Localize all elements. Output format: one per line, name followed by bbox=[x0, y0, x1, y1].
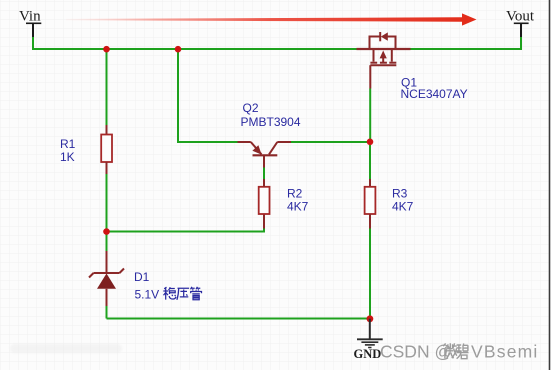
svg-text:Vout: Vout bbox=[506, 9, 535, 25]
svg-text:VBsemi: VBsemi bbox=[471, 341, 539, 361]
wire Q1 gate to junction bbox=[369, 89, 371, 143]
resistor R1 bbox=[60, 125, 112, 174]
wire Q1 drain to Vout bbox=[410, 48, 521, 50]
svg-text:R3: R3 bbox=[392, 187, 408, 201]
wire node to R2 bottom bbox=[107, 228, 265, 232]
label 5.1V zener chinese glyphs bbox=[163, 287, 201, 300]
resistor R3 bbox=[365, 179, 414, 229]
junction on rail at R1 bbox=[103, 46, 110, 53]
mosfet Q1 bbox=[357, 32, 468, 101]
port Vin bbox=[19, 9, 41, 50]
zener diode D1 bbox=[89, 251, 159, 306]
wire R1 to lower node bbox=[106, 174, 108, 232]
wire junction down to R3 bbox=[369, 142, 371, 179]
junction node R1/R2/D1 bbox=[103, 228, 110, 235]
svg-text:GND: GND bbox=[354, 347, 382, 361]
svg-text:Q2: Q2 bbox=[243, 101, 259, 115]
resistor R2 bbox=[259, 179, 309, 229]
svg-text:Vin: Vin bbox=[19, 9, 41, 25]
wire R2 to Q2 base bbox=[263, 168, 265, 180]
right margin bbox=[550, 0, 554, 370]
svg-text:PMBT3904: PMBT3904 bbox=[241, 115, 301, 129]
wire R3 to ground rail bbox=[369, 229, 371, 319]
wire node down to D1 bbox=[106, 232, 108, 252]
svg-text:CSDN @: CSDN @ bbox=[380, 341, 452, 361]
bottom ground rail wire bbox=[106, 306, 108, 319]
wire rail to R1 bbox=[106, 49, 108, 126]
watermark CSDN bbox=[380, 341, 539, 361]
transistor Q2 bbox=[238, 101, 301, 168]
wiped watermark smudge bbox=[10, 344, 122, 353]
current flow arrow bbox=[66, 13, 477, 25]
wire top rail Vin to Q1 source bbox=[33, 48, 357, 50]
junction on rail at Q2 branch bbox=[175, 46, 182, 53]
svg-text:4K7: 4K7 bbox=[392, 200, 414, 214]
wire Q2 collector to gate node bbox=[291, 141, 370, 143]
svg-text:4K7: 4K7 bbox=[287, 200, 309, 214]
svg-text:1K: 1K bbox=[60, 150, 75, 164]
junction Q1 gate node bbox=[367, 139, 374, 146]
svg-text:NCE3407AY: NCE3407AY bbox=[401, 87, 468, 101]
svg-text:R2: R2 bbox=[287, 187, 303, 201]
svg-text:R1: R1 bbox=[60, 137, 76, 151]
junction ground node bbox=[367, 315, 374, 322]
port Vout bbox=[506, 9, 535, 50]
svg-text:D1: D1 bbox=[134, 270, 150, 284]
ground GND bbox=[354, 319, 383, 361]
wire rail junction down and to Q2 left lead bbox=[178, 49, 239, 142]
window edge rule bbox=[549, 0, 551, 370]
svg-text:5.1V: 5.1V bbox=[135, 288, 160, 302]
